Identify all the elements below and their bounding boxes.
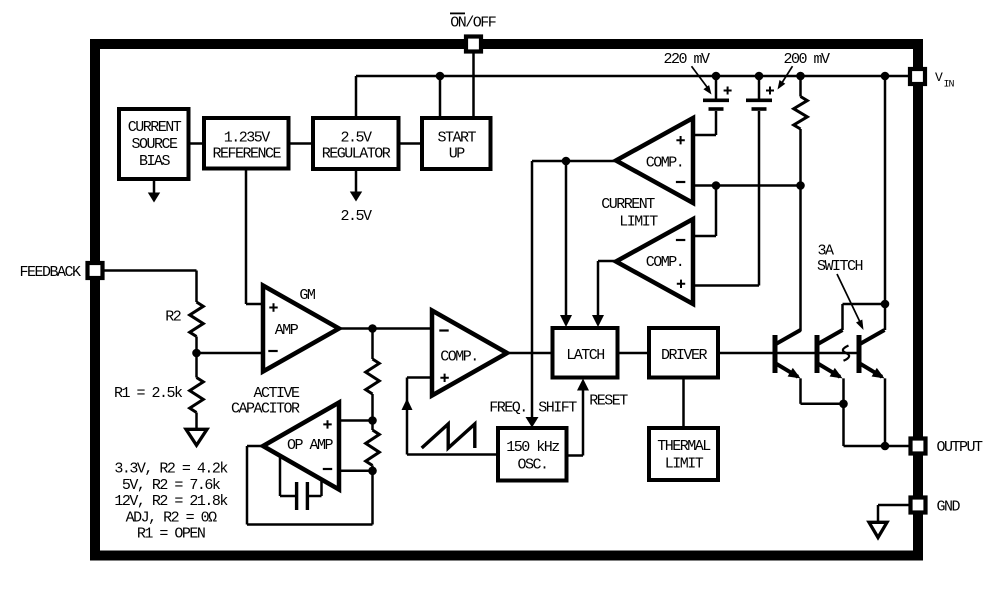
svg-text:LIMIT: LIMIT [665,455,704,472]
svg-text:LIMIT: LIMIT [619,214,658,231]
svg-text:SHIFT: SHIFT [538,400,577,417]
svg-text:1.235V: 1.235V [224,129,271,146]
svg-text:CURRENT: CURRENT [601,196,655,213]
svg-text:LATCH: LATCH [566,347,604,364]
svg-text:3.3V, R2 = 4.2k: 3.3V, R2 = 4.2k [114,461,228,478]
svg-text:SOURCE: SOURCE [131,136,178,153]
svg-text:SWITCH: SWITCH [817,258,863,275]
svg-text:GND: GND [937,499,961,516]
svg-text:150 kHz: 150 kHz [506,439,559,456]
svg-text:THERMAL: THERMAL [657,438,711,455]
svg-text:BIAS: BIAS [139,153,171,170]
svg-text:FEEDBACK: FEEDBACK [19,264,81,281]
svg-text:3A: 3A [817,242,834,259]
svg-text:RESET: RESET [589,393,628,410]
svg-text:START: START [437,129,476,146]
svg-text:200 mV: 200 mV [783,51,830,68]
svg-text:DRIVER: DRIVER [661,347,708,364]
svg-text:CAPACITOR: CAPACITOR [231,401,300,418]
svg-text:2.5V: 2.5V [340,129,372,146]
svg-text:5V, R2 = 7.6k: 5V, R2 = 7.6k [122,477,221,494]
svg-text:COMP.: COMP. [646,254,684,271]
svg-text:COMP.: COMP. [440,348,478,365]
svg-text:OSC.: OSC. [517,456,547,473]
svg-text:R1 = 2.5k: R1 = 2.5k [114,385,183,402]
svg-text:220 mV: 220 mV [663,51,710,68]
svg-text:OUTPUT: OUTPUT [936,439,983,456]
svg-text:ACTIVE: ACTIVE [253,385,300,402]
svg-text:ADJ, R2 = 0Ω: ADJ, R2 = 0Ω [126,509,218,526]
svg-text:CURRENT: CURRENT [128,119,182,136]
svg-text:2.5V: 2.5V [340,208,372,225]
svg-text:ON/OFF: ON/OFF [450,14,496,31]
svg-text:AMP: AMP [275,322,299,339]
svg-text:REFERENCE: REFERENCE [212,146,281,163]
svg-text:IN: IN [944,80,955,91]
svg-text:12V, R2 = 21.8k: 12V, R2 = 21.8k [114,493,228,510]
svg-text:UP: UP [449,146,466,163]
svg-text:R2: R2 [165,309,181,326]
svg-text:OP AMP: OP AMP [287,437,334,454]
svg-text:FREQ.: FREQ. [489,400,527,417]
svg-text:REGULATOR: REGULATOR [322,146,391,163]
svg-text:GM: GM [299,287,316,304]
svg-text:R1 = OPEN: R1 = OPEN [137,526,205,543]
svg-text:COMP.: COMP. [646,154,684,171]
